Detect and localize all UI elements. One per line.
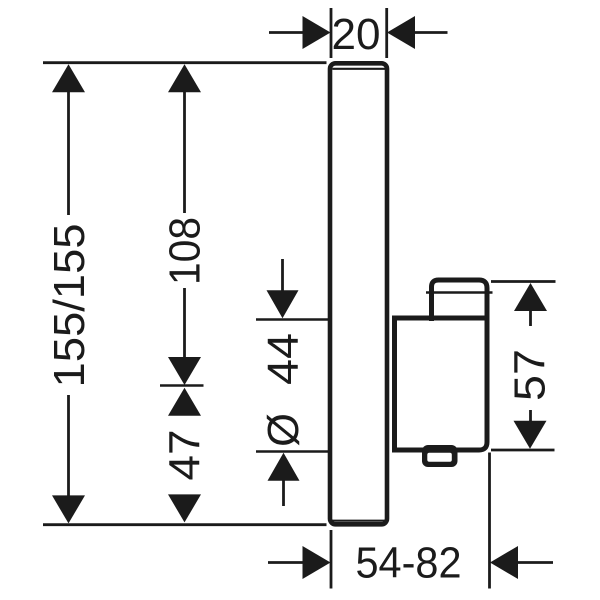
dim 54-82: right tail wire [518, 561, 554, 564]
valve body top edge [392, 316, 490, 321]
dim 44: top arrowhead [267, 290, 299, 318]
dim 20: right arrowhead [387, 16, 415, 49]
dim 20: left tail wire [269, 31, 303, 34]
svg-text:20: 20 [332, 11, 381, 59]
dim 155/155: bottom arrowhead [52, 495, 85, 523]
dim 54-82: right arrowhead [490, 546, 518, 579]
dim 108: upper stem [183, 91, 186, 213]
dim 20: right tail wire [415, 31, 448, 34]
dim 155/155: lower stem [67, 395, 70, 497]
valve body left edge [392, 316, 397, 453]
extension line: plate top level [43, 61, 327, 64]
dim 54-82: right extension line [488, 453, 491, 589]
svg-text:44: 44 [260, 333, 308, 385]
dim 57: lower stub [529, 410, 532, 421]
plate top inner edge line [332, 68, 385, 70]
bottom tab hole (white) [427, 453, 452, 462]
dim 54-82: left tail wire [268, 561, 303, 564]
svg-text:Ø: Ø [260, 413, 308, 447]
dim 47: top arrowhead [168, 388, 201, 416]
svg-text:57: 57 [507, 349, 555, 401]
bottom tab (black) [422, 445, 458, 467]
svg-text:108: 108 [162, 217, 210, 285]
tick 108/47 junction [160, 384, 204, 387]
dim 155/155: upper stem [67, 91, 70, 215]
dim 20: left arrowhead [303, 16, 331, 49]
plate (escutcheon side profile) [330, 63, 387, 524]
dim 20: right extension line [385, 8, 388, 58]
dim 108: bottom arrowhead [168, 357, 201, 385]
knob on top of valve body [432, 280, 488, 321]
valve body right + bottom edge [395, 318, 488, 450]
dim 57: top arrowhead [514, 283, 547, 311]
dim 47: bottom arrowhead [168, 494, 201, 522]
dim 54-82: left extension line [330, 530, 333, 589]
dim 44: bottom stem [282, 480, 285, 507]
dim 108: top arrowhead [168, 64, 201, 92]
dim 57: top extension line [491, 280, 556, 283]
dim 44: bottom arrowhead [268, 453, 300, 481]
svg-text:54-82: 54-82 [356, 540, 462, 588]
dim 155/155: top arrowhead [52, 64, 85, 92]
svg-text:155/155: 155/155 [46, 224, 94, 388]
knob parting line with side nubs [426, 291, 493, 294]
dim 57: bottom arrowhead [514, 421, 547, 449]
dim 20: left extension line [330, 8, 333, 58]
svg-text:47: 47 [162, 430, 210, 481]
plate bottom inner edge line [332, 520, 385, 522]
dim 108: lower stem [183, 288, 186, 358]
extension line: plate bottom level [43, 523, 327, 526]
dim 44: top tick [256, 318, 328, 321]
dim 57: bottom extension line [491, 449, 555, 452]
dim 44: top stem [281, 259, 284, 292]
dim 54-82: left arrowhead [303, 546, 331, 579]
dim 44: bottom tick [256, 450, 328, 453]
dim 57: upper stub [529, 310, 532, 326]
